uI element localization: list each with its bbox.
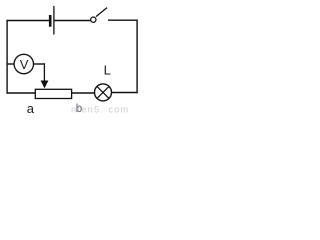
wire switch to top-right corner (108, 19, 138, 21)
svg-text:b: b (76, 101, 83, 115)
battery cell: short thick plate (negative) (49, 15, 52, 27)
svg-text:a: a (27, 101, 35, 115)
wire left vertical rail (6, 20, 8, 94)
lamp X cross (97, 86, 109, 98)
rheostat body rectangle (35, 89, 71, 98)
slider arrowhead (41, 81, 49, 89)
voltmeter V circle (14, 54, 33, 73)
battery cell: long thin plate (positive) (53, 6, 55, 35)
voltmeter wire from left rail (7, 63, 15, 65)
wire rheostat to lamp (72, 92, 95, 94)
wire lamp to right rail (112, 92, 138, 94)
wire top-left horizontal (7, 20, 50, 22)
background (0, 0, 142, 115)
switch S pivot circle (91, 17, 96, 22)
svg-text:L: L (104, 62, 111, 77)
switch blade (open) (96, 8, 107, 17)
wire battery to switch (54, 20, 91, 22)
wire left rail to rheostat terminal a (7, 92, 36, 94)
svg-text:V: V (20, 57, 29, 72)
wire voltmeter to slider corner (34, 63, 46, 65)
lamp L circle (95, 84, 112, 101)
slider arrow shaft (43, 63, 45, 81)
wire right vertical rail (136, 20, 138, 94)
